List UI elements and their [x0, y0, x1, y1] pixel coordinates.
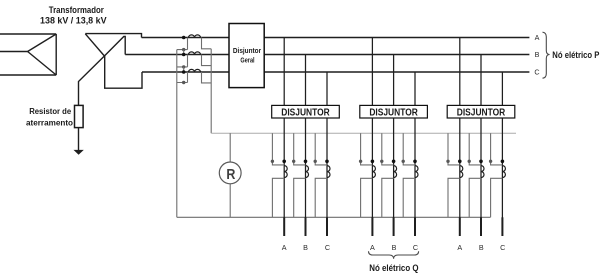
feeder 3 CT phase B primary dot	[479, 160, 483, 164]
feeder 3 CT phase B secondary bottom tap	[469, 178, 481, 217]
feeder 2 phase B line	[393, 55, 395, 237]
wire phase lines into delta	[0, 34, 56, 75]
feeder 1 CT phase C primary dot	[325, 160, 329, 164]
CT secondary left common wire	[176, 50, 178, 218]
wire feeder stub below bus x=393.6	[393, 217, 395, 236]
transformer T1 label	[40, 4, 107, 25]
feeder 1 CT phase C secondary top tap	[315, 133, 327, 165]
feeder 1 phase A line	[283, 38, 285, 237]
CT2 winding	[189, 52, 201, 55]
svg-text:C: C	[325, 243, 330, 252]
svg-text:138 kV / 13,8 kV: 138 kV / 13,8 kV	[40, 14, 107, 25]
wire feeder stub below bus x=372.4	[371, 217, 373, 236]
svg-text:DISJUNTOR: DISJUNTOR	[457, 107, 506, 118]
CT1 secondary right tap	[202, 38, 212, 49]
transformer wye winding	[79, 34, 143, 106]
svg-text:A: A	[370, 243, 375, 252]
feeder 2 CT phase B secondary top tap	[382, 133, 394, 165]
CT2 secondary junction dot	[182, 65, 185, 68]
CT2 primary dot	[182, 53, 186, 57]
feeder 2 CT phase B winding	[394, 166, 397, 178]
svg-text:Resistor de: Resistor de	[29, 106, 71, 116]
feeder 3 CT phase C secondary top tap	[491, 133, 503, 165]
CT3 secondary left tap	[177, 72, 188, 83]
wire dot to bus B	[183, 50, 185, 55]
CT2 secondary right tap	[202, 55, 212, 66]
feeder 1 phase B line	[305, 55, 307, 237]
feeder 1 CT phase B secondary top tap	[294, 133, 306, 165]
feeder 1 CT phase B winding	[306, 166, 309, 178]
feeder 2 CT phase B secondary dot	[380, 160, 383, 163]
feeder 2 phase A line	[371, 38, 373, 237]
feeder 2 CT phase C secondary bottom tap	[403, 178, 415, 217]
feeder 1 phase C line	[326, 72, 328, 236]
feeder 1 CT phase C secondary bottom tap	[315, 178, 327, 217]
feeder 2 CT phase C primary dot	[413, 160, 417, 164]
feeder 2 CT phase A secondary dot	[359, 160, 362, 163]
feeder 3 CT phase A winding	[460, 166, 463, 178]
svg-text:Geral: Geral	[240, 55, 254, 64]
feeder 2 CT phase A primary dot	[371, 160, 375, 164]
feeder 2 CT phase A secondary top tap	[361, 133, 373, 165]
svg-text:C: C	[500, 243, 505, 252]
feeder 1 CT phase A secondary bottom tap	[272, 178, 284, 217]
feeder 3 CT phase A primary dot	[458, 160, 462, 164]
feeder 3 CT phase C primary dot	[501, 160, 505, 164]
node C bus	[142, 71, 529, 73]
feeder 2 CT phase C winding	[415, 166, 418, 178]
svg-text:R: R	[226, 166, 235, 183]
breaker Disjuntor Geral box	[229, 24, 264, 88]
node P labels	[534, 33, 539, 77]
CT1 secondary left tap	[177, 38, 188, 50]
svg-text:aterramento: aterramento	[26, 118, 73, 128]
CT1 winding	[189, 35, 201, 38]
transformer delta winding	[28, 34, 57, 75]
CT3 winding	[189, 69, 201, 72]
feeder 3 CT phase C winding	[502, 166, 505, 178]
feeder 1 CT phase A secondary top tap	[272, 133, 284, 165]
CT2 secondary left tap	[177, 55, 188, 67]
svg-text:A: A	[282, 243, 287, 252]
resistor R-ground body	[75, 105, 84, 127]
brace node Q	[369, 251, 419, 259]
wire resistor to ground	[78, 128, 80, 151]
CT1 secondary junction dot	[182, 48, 185, 51]
relay R connector top	[229, 133, 231, 162]
feeder 2 CT phase B primary dot	[392, 160, 396, 164]
wire feeder stub below bus x=481	[480, 217, 482, 236]
feeder 3 CT phase B secondary top tap	[469, 133, 481, 165]
svg-text:B: B	[535, 50, 540, 59]
feeder 3 phase A line	[459, 38, 461, 237]
feeder 1 CT phase C secondary dot	[314, 160, 317, 163]
svg-text:DISJUNTOR: DISJUNTOR	[281, 107, 330, 118]
svg-text:A: A	[535, 33, 540, 42]
svg-text:Disjuntor: Disjuntor	[233, 46, 261, 55]
CT3 primary dot	[182, 70, 186, 74]
feeder 1 CT phase A secondary dot	[271, 160, 274, 163]
feeder 1 CT phase B primary dot	[304, 160, 308, 164]
feeder 3 CT phase A secondary bottom tap	[448, 178, 460, 217]
feeder 1 CT phase A primary dot	[282, 160, 286, 164]
node A bus (Nó elétrico P phase A)	[142, 37, 530, 39]
feeder 3 CT phase C secondary dot	[489, 160, 492, 163]
feeder 3 CT phase B secondary dot	[468, 160, 471, 163]
brace node P	[543, 32, 550, 78]
feeder 1 CT phase B secondary bottom tap	[294, 178, 306, 217]
relay R connector bottom	[229, 184, 231, 218]
wire feeder stub below bus x=459.8	[459, 217, 461, 236]
CT secondary upper bus	[211, 132, 516, 134]
svg-text:C: C	[413, 243, 418, 252]
wire feeder stub below bus x=284.2	[283, 217, 285, 236]
breaker DISJUNTOR box 1	[272, 105, 340, 118]
feeder 3 CT phase A secondary top tap	[448, 133, 460, 165]
breaker DISJUNTOR box 3	[447, 105, 515, 118]
feeder 2 CT phase C secondary top tap	[403, 133, 415, 165]
feeder 3 CT phase B winding	[481, 166, 484, 178]
feeder 3 CT phase A secondary dot	[446, 160, 449, 163]
CT3 secondary right tap	[202, 72, 212, 83]
feeder 2 CT phase A secondary bottom tap	[361, 178, 373, 217]
relay R	[219, 162, 241, 184]
feeder 2 phase C line	[414, 72, 416, 236]
wire feeder stub below bus x=502.4	[501, 217, 503, 236]
svg-text:A: A	[457, 243, 462, 252]
CT secondary bottom bus (to Nó Q side)	[177, 216, 491, 218]
resistor R-ground label	[26, 106, 73, 128]
feeder 3 phase B line	[480, 55, 482, 237]
feeder 1 CT phase A winding	[284, 166, 287, 178]
CT1 primary dot	[182, 36, 186, 40]
feeder 2 CT phase B secondary bottom tap	[382, 178, 394, 217]
feeder phase labels bottom	[282, 243, 506, 252]
feeder 2 CT phase A winding	[372, 166, 375, 178]
node B bus	[125, 54, 529, 56]
svg-text:DISJUNTOR: DISJUNTOR	[369, 107, 418, 118]
feeder 3 CT phase C secondary bottom tap	[491, 178, 503, 217]
wire feeder stub below bus x=415	[414, 217, 416, 236]
feeder 1 CT phase B secondary dot	[292, 160, 295, 163]
feeder 3 phase C line	[501, 72, 503, 236]
ground	[74, 150, 84, 155]
svg-text:B: B	[392, 243, 397, 252]
svg-text:B: B	[303, 243, 308, 252]
breaker DISJUNTOR box 2	[360, 105, 428, 118]
svg-text:C: C	[534, 68, 539, 77]
feeder 2 CT phase C secondary dot	[402, 160, 405, 163]
svg-text:B: B	[479, 243, 484, 252]
feeder 1 CT phase C winding	[327, 166, 330, 178]
wire feeder stub below bus x=327	[326, 217, 328, 236]
svg-text:Nó elétrico P: Nó elétrico P	[552, 49, 599, 60]
wire dot to bus C	[183, 67, 185, 72]
svg-text:Nó elétrico Q: Nó elétrico Q	[369, 262, 418, 273]
wire feeder stub below bus x=305.5	[305, 217, 307, 236]
CT3 secondary junction dot	[182, 81, 185, 84]
CT secondary right common wire	[210, 49, 212, 133]
